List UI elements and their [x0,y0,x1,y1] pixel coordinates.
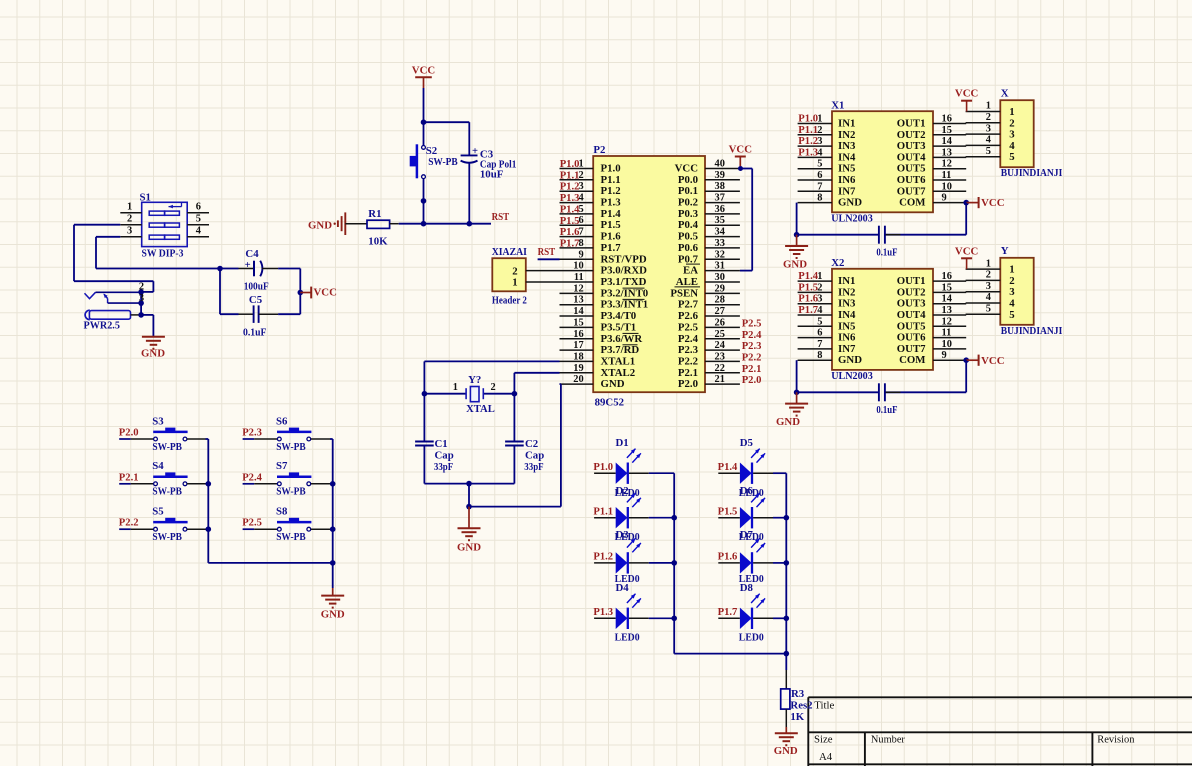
svg-text:PWR2.5: PWR2.5 [84,319,120,331]
svg-text:26: 26 [715,317,725,328]
svg-text:10uF: 10uF [480,169,504,181]
svg-text:P1.7: P1.7 [798,305,818,316]
svg-text:P1.5: P1.5 [560,216,580,227]
svg-text:6: 6 [196,202,201,213]
svg-text:LED0: LED0 [615,632,640,644]
svg-text:GND: GND [838,354,862,366]
svg-text:1: 1 [453,382,458,393]
svg-text:RST/VPD: RST/VPD [601,253,647,265]
svg-text:P1.1: P1.1 [798,125,818,136]
svg-text:Revision: Revision [1097,734,1135,746]
svg-text:36: 36 [715,204,725,215]
svg-text:VCC: VCC [729,144,752,156]
svg-text:IN3: IN3 [838,140,856,152]
svg-text:1: 1 [986,101,991,112]
svg-text:OUT1: OUT1 [897,275,926,287]
svg-text:1: 1 [817,114,822,125]
svg-text:SW-PB: SW-PB [276,486,306,498]
svg-text:4: 4 [986,292,991,303]
svg-text:2: 2 [986,112,991,123]
svg-text:IN6: IN6 [838,174,856,186]
svg-text:P2.3: P2.3 [742,341,762,352]
svg-text:4: 4 [817,305,822,316]
svg-text:6: 6 [817,170,822,181]
svg-text:P0.4: P0.4 [678,219,699,231]
svg-text:VCC: VCC [314,287,337,299]
svg-text:IN2: IN2 [838,129,855,141]
svg-text:P2.1: P2.1 [119,472,139,483]
svg-text:SW-PB: SW-PB [152,441,182,453]
svg-text:RST: RST [492,212,510,223]
svg-text:89C52: 89C52 [595,397,624,409]
svg-text:P1.6: P1.6 [560,227,580,238]
svg-text:GND: GND [783,258,807,270]
svg-text:1: 1 [817,271,822,282]
svg-text:5: 5 [986,304,991,315]
svg-text:2: 2 [1009,117,1014,129]
svg-text:16: 16 [942,271,952,282]
svg-text:11: 11 [942,328,952,339]
svg-text:OUT6: OUT6 [897,332,926,344]
svg-text:P1.2: P1.2 [593,552,613,563]
svg-text:P1.3: P1.3 [601,197,622,209]
svg-text:11: 11 [574,272,584,283]
svg-text:SW-PB: SW-PB [276,441,306,453]
svg-text:33: 33 [715,238,725,249]
svg-text:Cap: Cap [435,450,454,462]
svg-text:30: 30 [715,272,725,283]
svg-text:A4: A4 [819,751,833,763]
svg-text:IN2: IN2 [838,286,855,298]
svg-text:10: 10 [942,181,952,192]
svg-text:IN1: IN1 [838,118,855,130]
svg-text:P2.7: P2.7 [678,299,699,311]
svg-text:GND: GND [838,197,862,209]
svg-text:P1.0: P1.0 [798,114,818,125]
svg-text:100uF: 100uF [244,281,269,293]
svg-text:0.1uF: 0.1uF [876,246,897,258]
svg-text:IN6: IN6 [838,332,856,344]
svg-text:32: 32 [715,249,725,260]
svg-text:OUT2: OUT2 [897,129,926,141]
svg-text:IN7: IN7 [838,343,856,355]
svg-text:P0.5: P0.5 [678,231,698,243]
svg-text:Res2: Res2 [790,700,812,712]
svg-text:GND: GND [774,745,798,757]
svg-text:4: 4 [196,226,201,237]
svg-text:P2.4: P2.4 [242,472,262,483]
svg-text:OUT2: OUT2 [897,286,926,298]
svg-text:BUJINDIANJI: BUJINDIANJI [1001,167,1063,179]
svg-text:3: 3 [1009,129,1015,141]
svg-text:P2.0: P2.0 [119,428,139,439]
svg-text:P3.0/RXD: P3.0/RXD [601,265,648,277]
svg-text:P2.2: P2.2 [678,355,698,367]
svg-text:P2.0: P2.0 [678,378,698,390]
svg-text:OUT1: OUT1 [897,118,926,130]
svg-text:23: 23 [715,351,725,362]
svg-text:P2.5: P2.5 [242,518,262,529]
svg-text:IN4: IN4 [838,309,856,321]
svg-text:IN5: IN5 [838,163,855,175]
svg-text:ULN2003: ULN2003 [831,370,873,382]
svg-text:33pF: 33pF [434,461,454,473]
svg-text:Header 2: Header 2 [492,294,527,306]
svg-text:S3: S3 [152,415,164,427]
svg-text:IN3: IN3 [838,298,856,310]
svg-text:P2.5: P2.5 [678,321,698,333]
svg-text:27: 27 [715,306,725,317]
svg-text:P1.5: P1.5 [718,507,738,518]
svg-text:1: 1 [1009,264,1014,276]
svg-text:X1: X1 [831,100,844,112]
svg-text:S6: S6 [276,415,288,427]
svg-text:P3.5/T1: P3.5/T1 [601,321,637,333]
svg-text:8: 8 [817,193,822,204]
svg-text:VCC: VCC [412,64,435,76]
svg-text:16: 16 [942,114,952,125]
svg-text:P1.4: P1.4 [601,208,622,220]
svg-text:15: 15 [942,125,952,136]
svg-text:P1.5: P1.5 [798,282,818,293]
svg-text:P2.3: P2.3 [678,344,699,356]
svg-text:12: 12 [942,159,952,170]
svg-text:P2.3: P2.3 [242,428,262,439]
svg-text:3: 3 [1009,286,1015,298]
svg-text:17: 17 [573,340,583,351]
svg-text:1: 1 [512,277,517,289]
svg-text:22: 22 [715,363,725,374]
svg-text:20: 20 [573,374,583,385]
svg-text:10K: 10K [368,236,388,248]
svg-text:14: 14 [573,306,583,317]
svg-text:GND: GND [776,416,800,428]
svg-text:C1: C1 [435,438,448,450]
svg-text:13: 13 [573,295,583,306]
svg-text:ALE: ALE [676,276,698,288]
svg-text:COM: COM [899,354,925,366]
svg-text:OUT6: OUT6 [897,174,926,186]
svg-text:3: 3 [986,123,991,134]
svg-text:SW-PB: SW-PB [428,156,458,168]
svg-text:6: 6 [817,328,822,339]
svg-text:7: 7 [817,181,822,192]
svg-text:GND: GND [321,609,345,621]
svg-text:5: 5 [817,316,822,327]
svg-text:P1.2: P1.2 [601,185,621,197]
svg-text:P2.1: P2.1 [742,364,762,375]
svg-text:2: 2 [512,265,517,277]
svg-text:P1.5: P1.5 [601,219,621,231]
svg-text:5: 5 [817,159,822,170]
svg-text:VCC: VCC [981,197,1004,209]
svg-text:P3.6/WR: P3.6/WR [601,333,643,345]
svg-text:39: 39 [715,170,725,181]
svg-text:Size: Size [814,734,833,746]
svg-text:P1.6: P1.6 [798,294,818,305]
svg-text:11: 11 [942,170,952,181]
svg-text:+: + [245,260,251,271]
svg-text:OUT4: OUT4 [897,151,926,163]
svg-text:Number: Number [871,734,905,746]
svg-text:P3.7/RD: P3.7/RD [601,344,640,356]
svg-text:5: 5 [196,214,201,225]
svg-text:D5: D5 [740,437,753,449]
svg-text:P0.7: P0.7 [678,253,699,265]
svg-text:4: 4 [1009,298,1015,310]
svg-text:34: 34 [715,227,725,238]
svg-text:XTAL1: XTAL1 [601,355,636,367]
svg-text:9: 9 [942,193,947,204]
svg-text:9: 9 [942,350,947,361]
svg-text:5: 5 [1009,151,1014,163]
svg-text:P2.4: P2.4 [742,330,762,341]
svg-text:P3.1/TXD: P3.1/TXD [601,276,647,288]
svg-text:12: 12 [942,316,952,327]
svg-text:1: 1 [127,202,132,213]
svg-text:VCC: VCC [981,355,1004,367]
svg-text:SW-PB: SW-PB [276,531,306,543]
svg-text:C2: C2 [525,438,538,450]
svg-text:P1.3: P1.3 [593,607,613,618]
svg-text:5: 5 [1009,309,1014,321]
svg-text:13: 13 [942,305,952,316]
svg-text:GND: GND [457,542,481,554]
svg-text:38: 38 [715,181,725,192]
svg-text:18: 18 [573,351,583,362]
svg-text:1K: 1K [790,711,804,723]
svg-text:D8: D8 [740,582,754,594]
svg-text:25: 25 [715,329,725,340]
svg-text:2: 2 [817,125,822,136]
svg-text:P0.6: P0.6 [678,242,699,254]
svg-text:R3: R3 [791,688,805,700]
svg-text:2: 2 [817,282,822,293]
svg-text:VCC: VCC [675,163,698,175]
svg-text:SW DIP-3: SW DIP-3 [142,248,185,260]
svg-text:P3.2/INT0: P3.2/INT0 [601,287,649,299]
svg-text:S5: S5 [152,506,163,518]
svg-text:4: 4 [817,147,822,158]
svg-text:8: 8 [817,350,822,361]
svg-text:9: 9 [578,249,583,260]
svg-text:D6: D6 [740,485,754,497]
svg-text:24: 24 [715,340,725,351]
svg-text:SW-PB: SW-PB [152,531,182,543]
svg-text:P1.6: P1.6 [718,552,738,563]
svg-text:0.1uF: 0.1uF [243,327,267,339]
svg-text:XTAL: XTAL [466,403,495,415]
svg-text:2: 2 [127,214,132,225]
svg-text:P2.6: P2.6 [678,310,699,322]
svg-text:S4: S4 [152,460,164,472]
svg-text:P1.4: P1.4 [560,204,580,215]
svg-text:IN5: IN5 [838,320,855,332]
svg-text:P1.7: P1.7 [601,242,622,254]
svg-text:3: 3 [817,294,822,305]
svg-text:P3.3/INT1: P3.3/INT1 [601,299,649,311]
svg-text:P1.1: P1.1 [593,507,613,518]
svg-text:2: 2 [1009,275,1014,287]
svg-text:OUT4: OUT4 [897,309,926,321]
svg-text:COM: COM [899,197,925,209]
svg-text:2: 2 [491,382,496,393]
svg-text:13: 13 [942,147,952,158]
svg-text:19: 19 [573,363,583,374]
svg-text:15: 15 [942,282,952,293]
svg-text:P1.7: P1.7 [560,238,580,249]
svg-text:Y: Y [1001,245,1009,257]
svg-text:D3: D3 [616,529,630,541]
svg-text:RST: RST [538,247,556,258]
svg-text:4: 4 [1009,140,1015,152]
svg-text:X: X [1001,87,1009,99]
svg-text:D4: D4 [616,582,630,594]
svg-text:X2: X2 [831,257,844,269]
svg-text:P3.4/T0: P3.4/T0 [601,310,637,322]
svg-text:3: 3 [817,136,822,147]
svg-text:P2.5: P2.5 [742,318,762,329]
svg-text:S7: S7 [276,460,288,472]
svg-text:P2: P2 [593,144,605,156]
svg-text:P1.6: P1.6 [601,231,622,243]
svg-text:SW-PB: SW-PB [152,486,182,498]
svg-text:EA: EA [683,265,698,277]
svg-text:S1: S1 [140,191,151,203]
svg-text:40: 40 [715,159,725,170]
svg-text:P0.2: P0.2 [678,197,698,209]
svg-text:P1.2: P1.2 [798,136,818,147]
svg-text:OUT3: OUT3 [897,140,926,152]
svg-text:16: 16 [573,329,583,340]
svg-text:OUT5: OUT5 [897,163,926,175]
svg-text:P1.0: P1.0 [601,163,621,175]
svg-text:P2.4: P2.4 [678,333,699,345]
svg-text:7: 7 [817,339,822,350]
svg-text:4: 4 [986,135,991,146]
svg-text:10: 10 [573,261,583,272]
svg-text:VCC: VCC [955,88,978,100]
svg-text:3: 3 [986,281,991,292]
svg-text:P1.4: P1.4 [798,271,818,282]
svg-text:P0.1: P0.1 [678,185,698,197]
svg-text:29: 29 [715,283,725,294]
svg-text:IN7: IN7 [838,185,856,197]
svg-text:P1.2: P1.2 [560,182,580,193]
svg-text:14: 14 [942,136,952,147]
svg-text:D2: D2 [616,485,629,497]
svg-text:14: 14 [942,294,952,305]
svg-text:LED0: LED0 [739,632,764,644]
svg-text:R1: R1 [368,208,381,220]
svg-text:P1.4: P1.4 [718,462,738,473]
svg-text:P1.1: P1.1 [601,174,621,186]
svg-text:P1.0: P1.0 [593,462,613,473]
svg-text:0.1uF: 0.1uF [876,404,897,416]
svg-text:P2.2: P2.2 [119,518,139,529]
svg-text:GND: GND [601,378,625,390]
svg-text:PSEN: PSEN [670,287,698,299]
svg-text:P1.3: P1.3 [560,193,580,204]
svg-text:P1.3: P1.3 [798,147,818,158]
svg-text:D7: D7 [740,529,754,541]
svg-text:1: 1 [1009,106,1014,118]
svg-text:21: 21 [715,374,725,385]
svg-text:VCC: VCC [955,245,978,257]
svg-text:1: 1 [986,258,991,269]
svg-text:ULN2003: ULN2003 [831,212,873,224]
svg-text:C4: C4 [245,248,259,260]
svg-text:Title: Title [814,699,834,711]
svg-text:37: 37 [715,193,725,204]
svg-text:S8: S8 [276,506,288,518]
svg-text:Y?: Y? [468,374,481,386]
svg-text:10: 10 [942,339,952,350]
svg-text:3: 3 [139,293,144,304]
svg-text:IN4: IN4 [838,151,856,163]
svg-text:33pF: 33pF [524,461,544,473]
svg-text:5: 5 [986,146,991,157]
svg-text:15: 15 [573,317,583,328]
svg-text:OUT7: OUT7 [897,185,926,197]
svg-text:XTAL2: XTAL2 [601,367,636,379]
svg-text:P0.3: P0.3 [678,208,699,220]
svg-text:2: 2 [986,270,991,281]
svg-text:P1.1: P1.1 [560,170,580,181]
svg-text:Cap: Cap [525,450,544,462]
svg-text:C5: C5 [249,294,262,306]
svg-text:P2.2: P2.2 [742,352,762,363]
svg-text:2: 2 [139,282,144,293]
svg-text:31: 31 [715,261,725,272]
svg-text:P2.1: P2.1 [678,367,698,379]
svg-text:OUT5: OUT5 [897,320,926,332]
svg-text:35: 35 [715,215,725,226]
svg-text:P1.0: P1.0 [560,159,580,170]
svg-text:GND: GND [308,219,332,231]
svg-text:P0.0: P0.0 [678,174,698,186]
svg-text:P1.7: P1.7 [718,607,738,618]
svg-text:D1: D1 [616,437,629,449]
svg-text:IN1: IN1 [838,275,855,287]
svg-text:28: 28 [715,295,725,306]
svg-text:GND: GND [141,347,165,359]
svg-text:12: 12 [573,283,583,294]
svg-text:OUT3: OUT3 [897,298,926,310]
svg-text:+: + [472,146,478,157]
svg-text:OUT7: OUT7 [897,343,926,355]
svg-text:BUJINDIANJI: BUJINDIANJI [1001,325,1063,337]
svg-text:P2.0: P2.0 [742,375,762,386]
svg-text:3: 3 [127,226,132,237]
svg-text:XIAZAI: XIAZAI [492,246,527,258]
